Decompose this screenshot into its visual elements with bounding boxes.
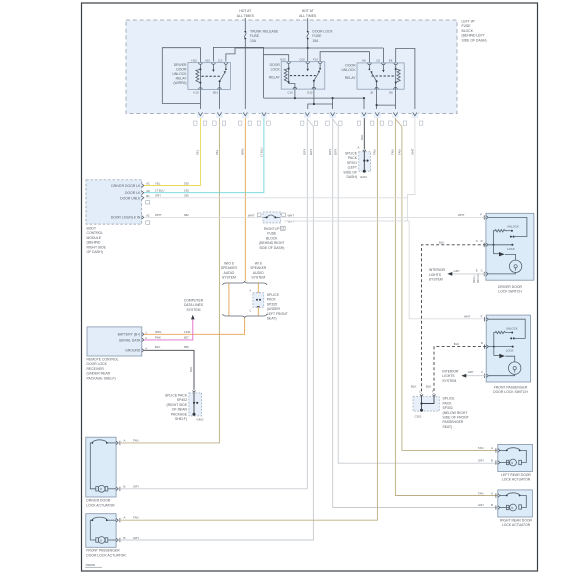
svg-text:SIDE OF FRONT: SIDE OF FRONT [443, 416, 469, 420]
svg-text:LIGHTS: LIGHTS [429, 273, 442, 277]
svg-text:TAN: TAN [478, 491, 483, 495]
pin C2 spare [146, 201, 150, 204]
relay K3 DOOR UNLOCK RELAY [341, 59, 404, 95]
svg-text:SIDE OF: SIDE OF [343, 170, 357, 174]
svg-text:SERIAL DATA: SERIAL DATA [119, 338, 141, 342]
svg-text:SP402: SP402 [177, 398, 187, 402]
svg-text:BLOCK: BLOCK [462, 29, 474, 33]
label W/O 6 SPEAKER AUDIO SYSTEM [221, 262, 238, 280]
wire feed bus to relay2 D10 and relay3 C8 [235, 47, 383, 49]
svg-text:295: 295 [184, 194, 189, 198]
svg-text:M: M [511, 463, 513, 465]
wire BLK ground to SP402 [144, 350, 194, 390]
svg-text:B: B [491, 503, 493, 507]
svg-text:REMOTE CONTROL: REMOTE CONTROL [87, 358, 119, 362]
switch arm [372, 73, 377, 89]
wire BLK dashed driver switch illumination [422, 245, 486, 394]
node HOT AT ALL TIMES (right) [299, 9, 317, 18]
svg-text:YEL: YEL [155, 181, 161, 185]
pin H8 [368, 63, 372, 65]
label wire WHT 682 [155, 213, 189, 217]
wire relay1 A10 to relay2 loop [213, 47, 263, 98]
svg-text:K10: K10 [194, 91, 199, 95]
svg-text:DOOR: DOOR [176, 67, 187, 71]
pin F [486, 216, 488, 220]
svg-text:J10: J10 [218, 58, 223, 62]
svg-text:TRUNK RELEASE: TRUNK RELEASE [250, 30, 279, 34]
svg-text:LIGHTS: LIGHTS [442, 374, 455, 378]
svg-text:RECEIVER: RECEIVER [87, 367, 105, 371]
svg-text:DOOR: DOOR [345, 64, 356, 68]
svg-text:PACKAGE SHELF): PACKAGE SHELF) [87, 376, 116, 380]
svg-text:W/ 6: W/ 6 [255, 262, 262, 266]
svg-text:B: B [124, 485, 126, 489]
svg-text:DATA LINES: DATA LINES [184, 303, 204, 307]
svg-text:SPLICE: SPLICE [443, 397, 456, 401]
svg-text:(UNDER: (UNDER [267, 307, 281, 311]
wire relay2 C10 down to bus [294, 89, 296, 98]
svg-text:GRY: GRY [309, 149, 313, 155]
svg-text:B1: B1 [146, 194, 150, 198]
connector exit TAN front passenger [371, 109, 384, 125]
svg-text:SPEAKER: SPEAKER [250, 266, 267, 270]
svg-text:FUSE: FUSE [312, 34, 322, 38]
svg-text:YEL: YEL [196, 149, 200, 155]
svg-text:(BEHIND RIGHT: (BEHIND RIGHT [259, 241, 284, 245]
svg-text:DOOR LOCK ACTUATOR: DOOR LOCK ACTUATOR [86, 553, 126, 557]
svg-text:D: D [481, 239, 483, 243]
svg-text:RIGHT REAR DOOR: RIGHT REAR DOOR [500, 518, 533, 522]
svg-text:850: 850 [184, 345, 189, 349]
svg-text:LOCK: LOCK [506, 349, 514, 353]
svg-text:SPLICE: SPLICE [345, 152, 358, 156]
pin C2 spare lower [146, 221, 150, 224]
label splice pack under seat [267, 293, 288, 321]
svg-text:DOOR LOCK: DOOR LOCK [312, 30, 333, 34]
svg-text:GRY: GRY [328, 149, 332, 155]
svg-text:SPLICE: SPLICE [267, 293, 280, 297]
node junction relay3 J8 [376, 104, 378, 106]
wire lock output link [314, 103, 333, 105]
driver door lock actuator [86, 437, 139, 497]
fuse DOOR LOCK 15A [307, 30, 334, 43]
connector exit TAN rear pair [389, 109, 407, 125]
svg-text:M: M [100, 540, 102, 542]
label BCM [87, 227, 107, 255]
relay K2 DOOR LOCK RELAY [269, 57, 325, 94]
wire GRY fp switch to interior lights [466, 375, 486, 377]
svg-text:D10: D10 [300, 57, 306, 61]
wire ORN branch without audio [228, 283, 230, 316]
svg-text:MODULE: MODULE [87, 236, 102, 240]
svg-text:TAN: TAN [133, 515, 138, 519]
svg-text:UNLOCK: UNLOCK [507, 225, 519, 229]
svg-text:E10: E10 [307, 90, 312, 94]
svg-text:SIDE OF DASH): SIDE OF DASH) [462, 38, 487, 42]
svg-text:ALL TIMES: ALL TIMES [237, 14, 255, 18]
pin E8 [394, 63, 398, 65]
svg-text:H10: H10 [192, 58, 198, 62]
svg-text:(BELOW RIGHT: (BELOW RIGHT [443, 411, 468, 415]
svg-text:TAN: TAN [373, 150, 377, 155]
fuse block label [462, 20, 487, 43]
connector exit GRY pair 1 [301, 109, 318, 125]
pin A [116, 441, 118, 445]
wire GRY split2 branch to left rear [333, 119, 498, 463]
wire TAN unlock to front passenger actuator [121, 118, 378, 520]
wire WHT relay3 coil feed jog [408, 118, 415, 221]
wire GRY BCM door unlk [144, 197, 408, 199]
svg-text:GRY: GRY [133, 485, 139, 489]
svg-text:DOOR LOCK SWITCH: DOOR LOCK SWITCH [493, 390, 528, 394]
wire coil ground bus [264, 97, 365, 99]
svg-text:WHT: WHT [464, 315, 471, 319]
svg-text:COMPUTER: COMPUTER [184, 299, 204, 303]
pin C D [486, 243, 488, 247]
svg-text:LOCK: LOCK [271, 68, 281, 72]
svg-text:BLOCK: BLOCK [266, 236, 278, 240]
svg-text:(BEHIND LEFT: (BEHIND LEFT [462, 34, 485, 38]
svg-text:ORN: ORN [241, 149, 245, 155]
label interior lights system (driver) [429, 268, 446, 281]
wire bus drop to BLK exit [363, 98, 365, 113]
svg-text:DRIVER DOOR: DRIVER DOOR [498, 285, 522, 289]
svg-text:BLK: BLK [411, 385, 416, 389]
svg-text:M: M [100, 489, 102, 491]
wire ORN fuse to audio option brace [244, 118, 246, 281]
splice pack SP302 [411, 385, 469, 429]
label left rear actuator [501, 473, 531, 482]
page frame [82, 3, 538, 571]
svg-text:BLK: BLK [189, 367, 193, 372]
svg-text:FUSE: FUSE [267, 232, 277, 236]
svg-text:SYSTEM: SYSTEM [251, 276, 265, 280]
svg-text:(W/RPA): (W/RPA) [173, 81, 186, 85]
svg-text:150803: 150803 [86, 563, 96, 567]
wire relay2 E10 to GRY exit1 [308, 89, 314, 113]
svg-text:FUSE: FUSE [462, 24, 472, 28]
armature dashed link [290, 75, 316, 77]
svg-text:BODY: BODY [87, 227, 97, 231]
label wire LT BLU 195 [155, 189, 189, 193]
brace audio option bottom [223, 314, 268, 318]
svg-text:DOOR LK: DOOR LK [125, 191, 141, 195]
svg-text:LOCK ACTUATOR: LOCK ACTUATOR [502, 523, 531, 527]
wire BLK dashed fp switch illumination [434, 347, 486, 394]
circuit breaker right IP fuse block [248, 212, 294, 224]
svg-text:SEAT): SEAT) [267, 317, 277, 321]
wire ORN branch with audio [257, 283, 259, 316]
wire relay3 J8 to TAN exit [376, 89, 378, 113]
wire GRY split1 branch to front passenger actuator [121, 119, 314, 540]
wire unlock output link [377, 104, 396, 106]
svg-text:DASH): DASH) [346, 175, 357, 179]
pin A8 [142, 191, 144, 195]
svg-text:RELAY: RELAY [176, 76, 188, 80]
svg-text:(BEHIND: (BEHIND [87, 241, 101, 245]
wire trunk release fuse output down to ORN exit [244, 39, 246, 113]
svg-text:A: A [124, 515, 126, 519]
svg-text:FRONT PASSENGER: FRONT PASSENGER [86, 549, 120, 553]
svg-text:G201: G201 [360, 175, 367, 179]
svg-text:AUDIO: AUDIO [253, 271, 264, 275]
node bus junction BLK drop [363, 97, 365, 99]
wire GRY lock feed split2 to right rear [333, 118, 498, 508]
svg-text:GRY: GRY [303, 149, 307, 155]
pin H10 [199, 63, 203, 65]
svg-text:RELAY: RELAY [269, 76, 281, 80]
wire relay3 E8 loop to exit [396, 48, 415, 113]
svg-text:DOOR UNLK: DOOR UNLK [120, 196, 141, 200]
svg-text:C8: C8 [376, 59, 380, 63]
svg-text:LT BLU: LT BLU [259, 148, 263, 157]
wire YEL relay1 to BCM [144, 118, 201, 186]
svg-text:SYSTEM: SYSTEM [442, 379, 456, 383]
svg-text:OF DASH): OF DASH) [87, 250, 103, 254]
svg-text:RIGHT SIDE: RIGHT SIDE [87, 245, 107, 249]
wire relay3 D8 down to TAN exit [395, 89, 397, 113]
svg-text:(RIGHT SIDE: (RIGHT SIDE [167, 403, 188, 407]
svg-text:807: 807 [184, 336, 189, 340]
wire LT BLU fuse block to BCM [144, 118, 264, 193]
front passenger door lock actuator [86, 514, 139, 548]
label driver switch [498, 285, 522, 294]
svg-text:1340: 1340 [184, 330, 191, 334]
svg-text:B: B [124, 536, 126, 540]
label wire PNK 807 [155, 336, 189, 340]
svg-text:F: F [480, 213, 482, 217]
connector exit WHT relay feed [412, 109, 423, 125]
wire ORN to RCDLR battery [144, 318, 245, 334]
label wire ORG 1340 [155, 330, 191, 334]
svg-text:BLK: BLK [360, 135, 364, 140]
pin M10 [218, 88, 222, 90]
svg-text:SP205: SP205 [267, 302, 277, 306]
right rear door lock actuator [478, 490, 532, 517]
wire PNK serial data [144, 320, 193, 340]
node junction relay2 E10 [313, 103, 315, 105]
svg-text:OF REAR: OF REAR [172, 408, 188, 412]
svg-text:BLK: BLK [426, 385, 431, 389]
connector exit GRY pair 2 [326, 109, 342, 125]
pin B [116, 487, 118, 491]
label right rear actuator [500, 518, 533, 527]
brace audio option top [223, 281, 268, 285]
pin 1 [142, 333, 144, 337]
relay K1 DRIVER DOOR UNLOCK RELAY [172, 58, 230, 94]
label RIGHT I/P FUSE BLOCK [259, 227, 284, 250]
wire relay1 J10 feed jog [226, 48, 235, 62]
svg-text:DOOR LOCK: DOOR LOCK [87, 362, 108, 366]
switch internal feed [488, 217, 527, 236]
wire battery feed to door lock fuse [307, 18, 309, 31]
svg-text:SPEAKER: SPEAKER [221, 266, 238, 270]
resistor R [494, 230, 508, 234]
svg-text:A: A [491, 491, 493, 495]
armature dashed link [202, 75, 222, 77]
wire GRY driver switch to interior lights [452, 273, 486, 275]
node fuse output junction [307, 47, 309, 49]
svg-text:A: A [491, 446, 493, 450]
pin J10 [224, 63, 228, 65]
svg-text:SPLICE PACK: SPLICE PACK [165, 394, 188, 398]
pin B1 [142, 196, 144, 200]
driver door lock switch [476, 213, 534, 281]
connector exits at fuse block bottom edge [194, 109, 423, 125]
svg-text:(LEFT: (LEFT [348, 166, 357, 170]
node HOT AT ALL TIMES (left) [237, 9, 255, 18]
wire bus drop to GRY exit2 [332, 98, 334, 113]
armature dashed link [372, 75, 395, 77]
coil L1 [199, 64, 201, 89]
svg-text:LOCK ACTUATOR: LOCK ACTUATOR [502, 478, 531, 482]
label W/ 6 SPEAKER AUDIO SYSTEM [250, 262, 267, 280]
svg-text:WHT: WHT [288, 213, 295, 217]
pin D8 [394, 87, 398, 89]
svg-text:BLK: BLK [454, 342, 459, 346]
svg-text:D8: D8 [389, 90, 393, 94]
svg-text:GRY: GRY [478, 503, 484, 507]
svg-text:TAN: TAN [391, 150, 395, 155]
left rear door lock actuator [478, 444, 532, 471]
svg-text:BLK: BLK [439, 240, 444, 244]
wire WHT breaker branch to front passenger switch [284, 221, 486, 319]
svg-text:SYSTEM: SYSTEM [187, 308, 201, 312]
wire GRY lock feed split1 [121, 118, 307, 489]
contact arrow C8 [382, 65, 384, 70]
svg-text:GRY: GRY [478, 458, 484, 462]
svg-text:FUSE: FUSE [250, 34, 260, 38]
svg-text:SHELF): SHELF) [175, 417, 187, 421]
svg-text:W/O 6: W/O 6 [224, 262, 234, 266]
svg-text:10A: 10A [250, 39, 257, 43]
svg-text:195: 195 [184, 189, 189, 193]
svg-text:LOCK ACTUATOR: LOCK ACTUATOR [86, 503, 115, 507]
svg-text:A2: A2 [146, 214, 150, 218]
svg-text:GRY: GRY [468, 370, 474, 374]
svg-text:PNK: PNK [155, 336, 161, 340]
label RCDLR [87, 358, 119, 381]
label driver actuator [86, 499, 115, 508]
coil L2 [289, 64, 295, 90]
pin C10 [293, 87, 297, 89]
svg-text:G402: G402 [197, 418, 204, 422]
svg-text:E: E [476, 268, 478, 272]
svg-text:M: M [511, 508, 513, 510]
pin A2 lower [142, 216, 144, 220]
svg-text:WHT: WHT [410, 148, 414, 155]
switch arm [220, 73, 225, 90]
wire relay1 K10 down to YEL exit [199, 89, 201, 113]
svg-text:B: B [491, 458, 493, 462]
svg-text:TAN: TAN [397, 150, 401, 155]
svg-text:DRIVER: DRIVER [174, 63, 187, 67]
wire TAN split branch to left rear actuator [395, 119, 497, 450]
svg-text:GRY: GRY [454, 269, 460, 273]
pin D10 [306, 62, 310, 64]
svg-text:E8: E8 [389, 59, 393, 63]
splice pack SP (under left front seat) [250, 290, 264, 313]
svg-text:UNLOCK: UNLOCK [172, 72, 187, 76]
node bus junction drop to exit [332, 97, 334, 99]
fuse block (LEFT I/P FUSE BLOCK) dashed box [126, 20, 457, 114]
svg-text:RIGHT I/P: RIGHT I/P [264, 227, 280, 231]
svg-text:LOCK SWITCH: LOCK SWITCH [498, 290, 522, 294]
label front passenger actuator [86, 549, 126, 558]
connector exit LT BLU [257, 109, 270, 125]
pin K10 [199, 88, 203, 90]
label wire GRY 295 [155, 194, 189, 198]
connector exit TAN driver [213, 109, 226, 125]
contact arrow A10 [212, 64, 214, 69]
svg-text:BATTERY (B+): BATTERY (B+) [118, 333, 141, 337]
label interior lights system (fp) [442, 369, 459, 382]
contact arrow D10 [307, 64, 309, 69]
wire TAN unlock split to right rear actuator [395, 118, 497, 496]
svg-text:C: C [481, 370, 483, 374]
svg-text:ORG: ORG [155, 330, 161, 334]
svg-text:F: F [481, 314, 483, 318]
svg-text:682: 682 [184, 213, 189, 217]
svg-text:LEFT FRONT: LEFT FRONT [267, 312, 288, 316]
label front passenger switch [493, 385, 528, 394]
svg-text:YEL: YEL [215, 149, 219, 155]
svg-text:(W/RL): (W/RL) [474, 275, 476, 283]
internal jumper arc [107, 442, 116, 444]
svg-text:UNLOCK: UNLOCK [341, 68, 356, 72]
front passenger door lock switch [481, 314, 531, 382]
wiper arm [494, 253, 500, 255]
svg-text:LOCK: LOCK [507, 247, 515, 251]
svg-text:PASSENGER: PASSENGER [443, 420, 464, 424]
svg-text:B10: B10 [281, 57, 286, 61]
fuse TRUNK RELEASE 10A [244, 30, 279, 43]
splice pack SP402 [165, 390, 204, 421]
lock contact row [488, 244, 512, 246]
BCM box [86, 180, 150, 224]
svg-text:PACK: PACK [443, 401, 453, 405]
switch arm [314, 72, 319, 89]
wire TAN relay1 to driver actuator [121, 118, 220, 443]
svg-text:SP201: SP201 [347, 161, 357, 165]
svg-text:SP302: SP302 [443, 406, 453, 410]
svg-text:ALL TIMES: ALL TIMES [299, 14, 317, 18]
RCDLR box [87, 327, 147, 356]
svg-text:LEFT REAR DOOR: LEFT REAR DOOR [501, 473, 531, 477]
pin A2 [142, 184, 144, 188]
svg-text:A2: A2 [146, 182, 150, 186]
svg-text:FRONT PASSENGER: FRONT PASSENGER [494, 385, 528, 389]
svg-text:WHT: WHT [155, 213, 162, 217]
svg-text:LT BLU: LT BLU [155, 189, 164, 193]
bulb to pin E [488, 273, 515, 274]
wire BLK to splice pack SP201 [363, 118, 365, 150]
connector exit BLK [357, 109, 367, 125]
wire battery feed to trunk release fuse [244, 18, 246, 31]
svg-text:SEAT): SEAT) [443, 425, 453, 429]
svg-text:GRY: GRY [333, 149, 337, 155]
splice pack SP201 [343, 146, 370, 180]
svg-text:A8: A8 [146, 189, 150, 193]
svg-text:(W/O RL): (W/O RL) [478, 273, 480, 283]
svg-text:A10: A10 [205, 58, 210, 62]
connector exit ORN [239, 109, 252, 125]
connector exit YEL [194, 109, 207, 125]
label wire YEL 530 [155, 181, 189, 185]
svg-text:INTERIOR: INTERIOR [429, 268, 446, 272]
svg-text:C302: C302 [415, 415, 422, 419]
svg-text:PACK: PACK [267, 298, 277, 302]
